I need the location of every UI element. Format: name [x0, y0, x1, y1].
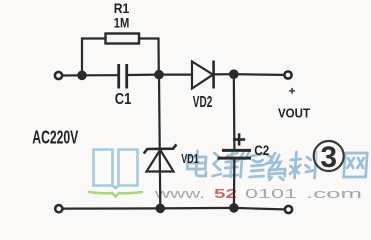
node E junction dot — [229, 203, 239, 213]
wire R1 branch right leg — [140, 39, 159, 75]
svg-text:3: 3 — [320, 141, 337, 174]
char wang — [344, 153, 368, 177]
wire bottom rail left — [63, 207, 160, 209]
capacitor C2 electrolytic — [218, 150, 252, 158]
resistor R1 — [106, 34, 140, 44]
zener diode VD1 — [144, 144, 177, 171]
plus sign of C2 — [233, 133, 245, 145]
figure number circled 3 — [314, 141, 344, 174]
svg-text:0101: 0101 — [245, 187, 297, 201]
wire VD2 cathode to node C — [214, 73, 234, 75]
wire bottom rail right — [234, 208, 284, 210]
terminal AC left bottom — [55, 205, 62, 212]
wire C2 branch lower — [233, 159, 236, 208]
terminal VOUT minus — [285, 206, 292, 213]
char zi — [264, 153, 286, 180]
svg-text:R1: R1 — [114, 0, 130, 16]
wire node B to VD2 anode — [159, 73, 192, 75]
capacitor C1 — [119, 64, 127, 89]
char xiu — [238, 152, 266, 177]
node C junction dot — [229, 69, 239, 79]
diode VD2 — [192, 61, 214, 89]
watermark book logo — [89, 150, 142, 197]
plus sign of VOUT — [289, 88, 295, 94]
svg-text:1M: 1M — [114, 15, 130, 31]
char dian — [187, 151, 208, 176]
svg-text:C2: C2 — [254, 142, 269, 158]
watermark chinese characters — [186, 151, 367, 180]
svg-text:.com: .com — [306, 187, 362, 201]
wire R1 branch left leg — [82, 39, 105, 76]
wire top rail left — [63, 74, 83, 76]
wire VD1 branch vertical — [159, 75, 160, 209]
wire C2 branch upper — [233, 74, 236, 150]
svg-text:C1: C1 — [115, 91, 132, 108]
svg-text:VD2: VD2 — [193, 94, 213, 111]
wire bottom rail middle — [160, 207, 234, 210]
wire left dot to C1 — [82, 74, 118, 76]
wire C1 to node B — [128, 73, 160, 76]
node B junction dot — [154, 70, 164, 80]
svg-text:AC220V: AC220V — [32, 127, 78, 147]
node D junction dot — [156, 204, 166, 214]
terminal AC left top — [55, 72, 62, 79]
node A junction dot — [77, 71, 87, 81]
char wei — [213, 153, 240, 177]
watermark url www.520101.com — [153, 187, 362, 201]
terminal VOUT plus — [284, 71, 291, 78]
svg-text:VOUT: VOUT — [278, 106, 310, 121]
char liao — [290, 152, 317, 178]
svg-text:VD1: VD1 — [181, 151, 199, 166]
wire node C to VOUT terminal — [234, 73, 284, 76]
